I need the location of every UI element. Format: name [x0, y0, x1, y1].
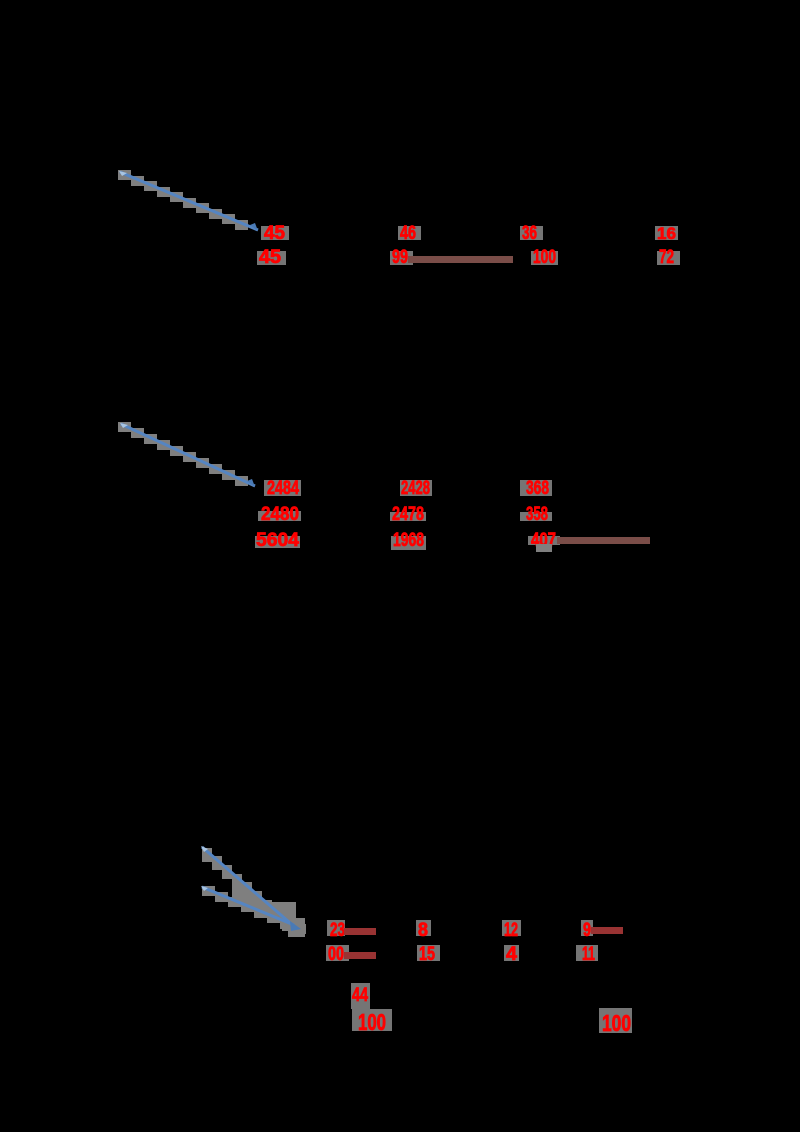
svg-text:368: 368 — [526, 478, 549, 499]
red value 100 (s3 bottom right) — [599, 1008, 632, 1036]
red value 8 (s3 r1c2) — [416, 920, 431, 941]
svg-text:12: 12 — [504, 920, 518, 941]
red value 4 (s3 r2c3) — [504, 944, 519, 965]
svg-text:15: 15 — [419, 944, 435, 965]
svg-text:9: 9 — [583, 920, 591, 941]
red value 2478 (tbl r2c2) — [390, 504, 426, 525]
svg-text:23: 23 — [330, 920, 345, 941]
annotation bar (s3 r1c1) — [344, 928, 376, 935]
annotation bar (section1) — [408, 256, 513, 263]
red value 11 (s3 r2c4) — [576, 944, 598, 965]
red value 2484 (tbl r1c1) — [264, 478, 301, 499]
svg-text:1968: 1968 — [393, 530, 424, 551]
callout line 3a — [201, 846, 296, 928]
red value 00 (s3 r2c1) — [326, 944, 349, 965]
annotation bar (section2) — [557, 537, 650, 544]
callout line 1 — [119, 171, 258, 231]
svg-text:16: 16 — [657, 224, 676, 243]
svg-text:00: 00 — [328, 944, 344, 965]
red value 2480 (tbl r2c1) — [258, 504, 301, 525]
svg-text:100: 100 — [602, 1010, 631, 1036]
callout 3 highlight staircase upper — [202, 848, 292, 931]
red value 72 (row2 col4) — [657, 247, 680, 268]
gray tail under 407 — [536, 544, 552, 552]
red value 100 (s3 bottom left) — [352, 1009, 392, 1035]
svg-text:2480: 2480 — [261, 504, 299, 525]
red value 2428 (tbl r1c2) — [400, 478, 432, 499]
svg-text:358: 358 — [526, 504, 548, 525]
red value 99 (row2 col2) — [390, 247, 413, 268]
red value 15 (s3 r2c2) — [417, 944, 440, 965]
svg-text:72: 72 — [659, 247, 674, 268]
svg-text:11: 11 — [582, 944, 595, 965]
svg-text:46: 46 — [400, 223, 416, 244]
svg-text:4: 4 — [506, 944, 517, 965]
annotation bar (s3 r1c4) — [591, 927, 623, 934]
svg-text:2428: 2428 — [401, 478, 430, 499]
red value 1968 (tbl r3c2) — [391, 530, 426, 551]
svg-text:45: 45 — [264, 223, 285, 244]
red value 9 (s3 r1c4) — [581, 920, 593, 941]
red value 12 (s3 r1c3) — [502, 920, 521, 941]
red value 46 (row1 col2) — [398, 223, 421, 244]
callout 2 highlight staircase — [118, 422, 248, 486]
svg-text:5604: 5604 — [256, 530, 299, 551]
red value 45 (row2 col1) — [257, 247, 286, 268]
callout line 2 — [120, 423, 255, 487]
svg-text:100: 100 — [533, 247, 556, 268]
red value 36 (row1 col3) — [520, 223, 543, 244]
red value 368 (tbl r1c3) — [520, 478, 552, 499]
red value 358 (tbl r2c3) — [520, 504, 552, 525]
svg-text:2478: 2478 — [392, 504, 424, 525]
callout 3 highlight staircase lower — [202, 886, 306, 934]
svg-text:2484: 2484 — [267, 478, 299, 499]
red value 45 (row1 col1) — [261, 223, 289, 244]
red value 23 (s3 r1c1) — [327, 920, 345, 941]
red value 100 (row2 col3) — [531, 247, 558, 268]
callout line 3b — [201, 886, 301, 931]
svg-text:44: 44 — [352, 985, 368, 1006]
red value 407 (tbl r3c3) — [528, 530, 560, 551]
red value 5604 (tbl r3c1) — [255, 530, 300, 551]
annotation bar (s3 r2c1) — [344, 952, 376, 959]
red value 44 (s3 single) — [351, 983, 370, 1009]
svg-text:45: 45 — [259, 247, 281, 268]
callout 3 highlight wedge — [232, 873, 305, 937]
svg-text:36: 36 — [522, 223, 537, 244]
svg-text:100: 100 — [358, 1009, 386, 1035]
callout 1 highlight staircase — [118, 170, 248, 230]
red value 16 (row1 col4) — [655, 224, 678, 243]
svg-text:8: 8 — [418, 920, 428, 941]
svg-text:99: 99 — [392, 247, 408, 268]
